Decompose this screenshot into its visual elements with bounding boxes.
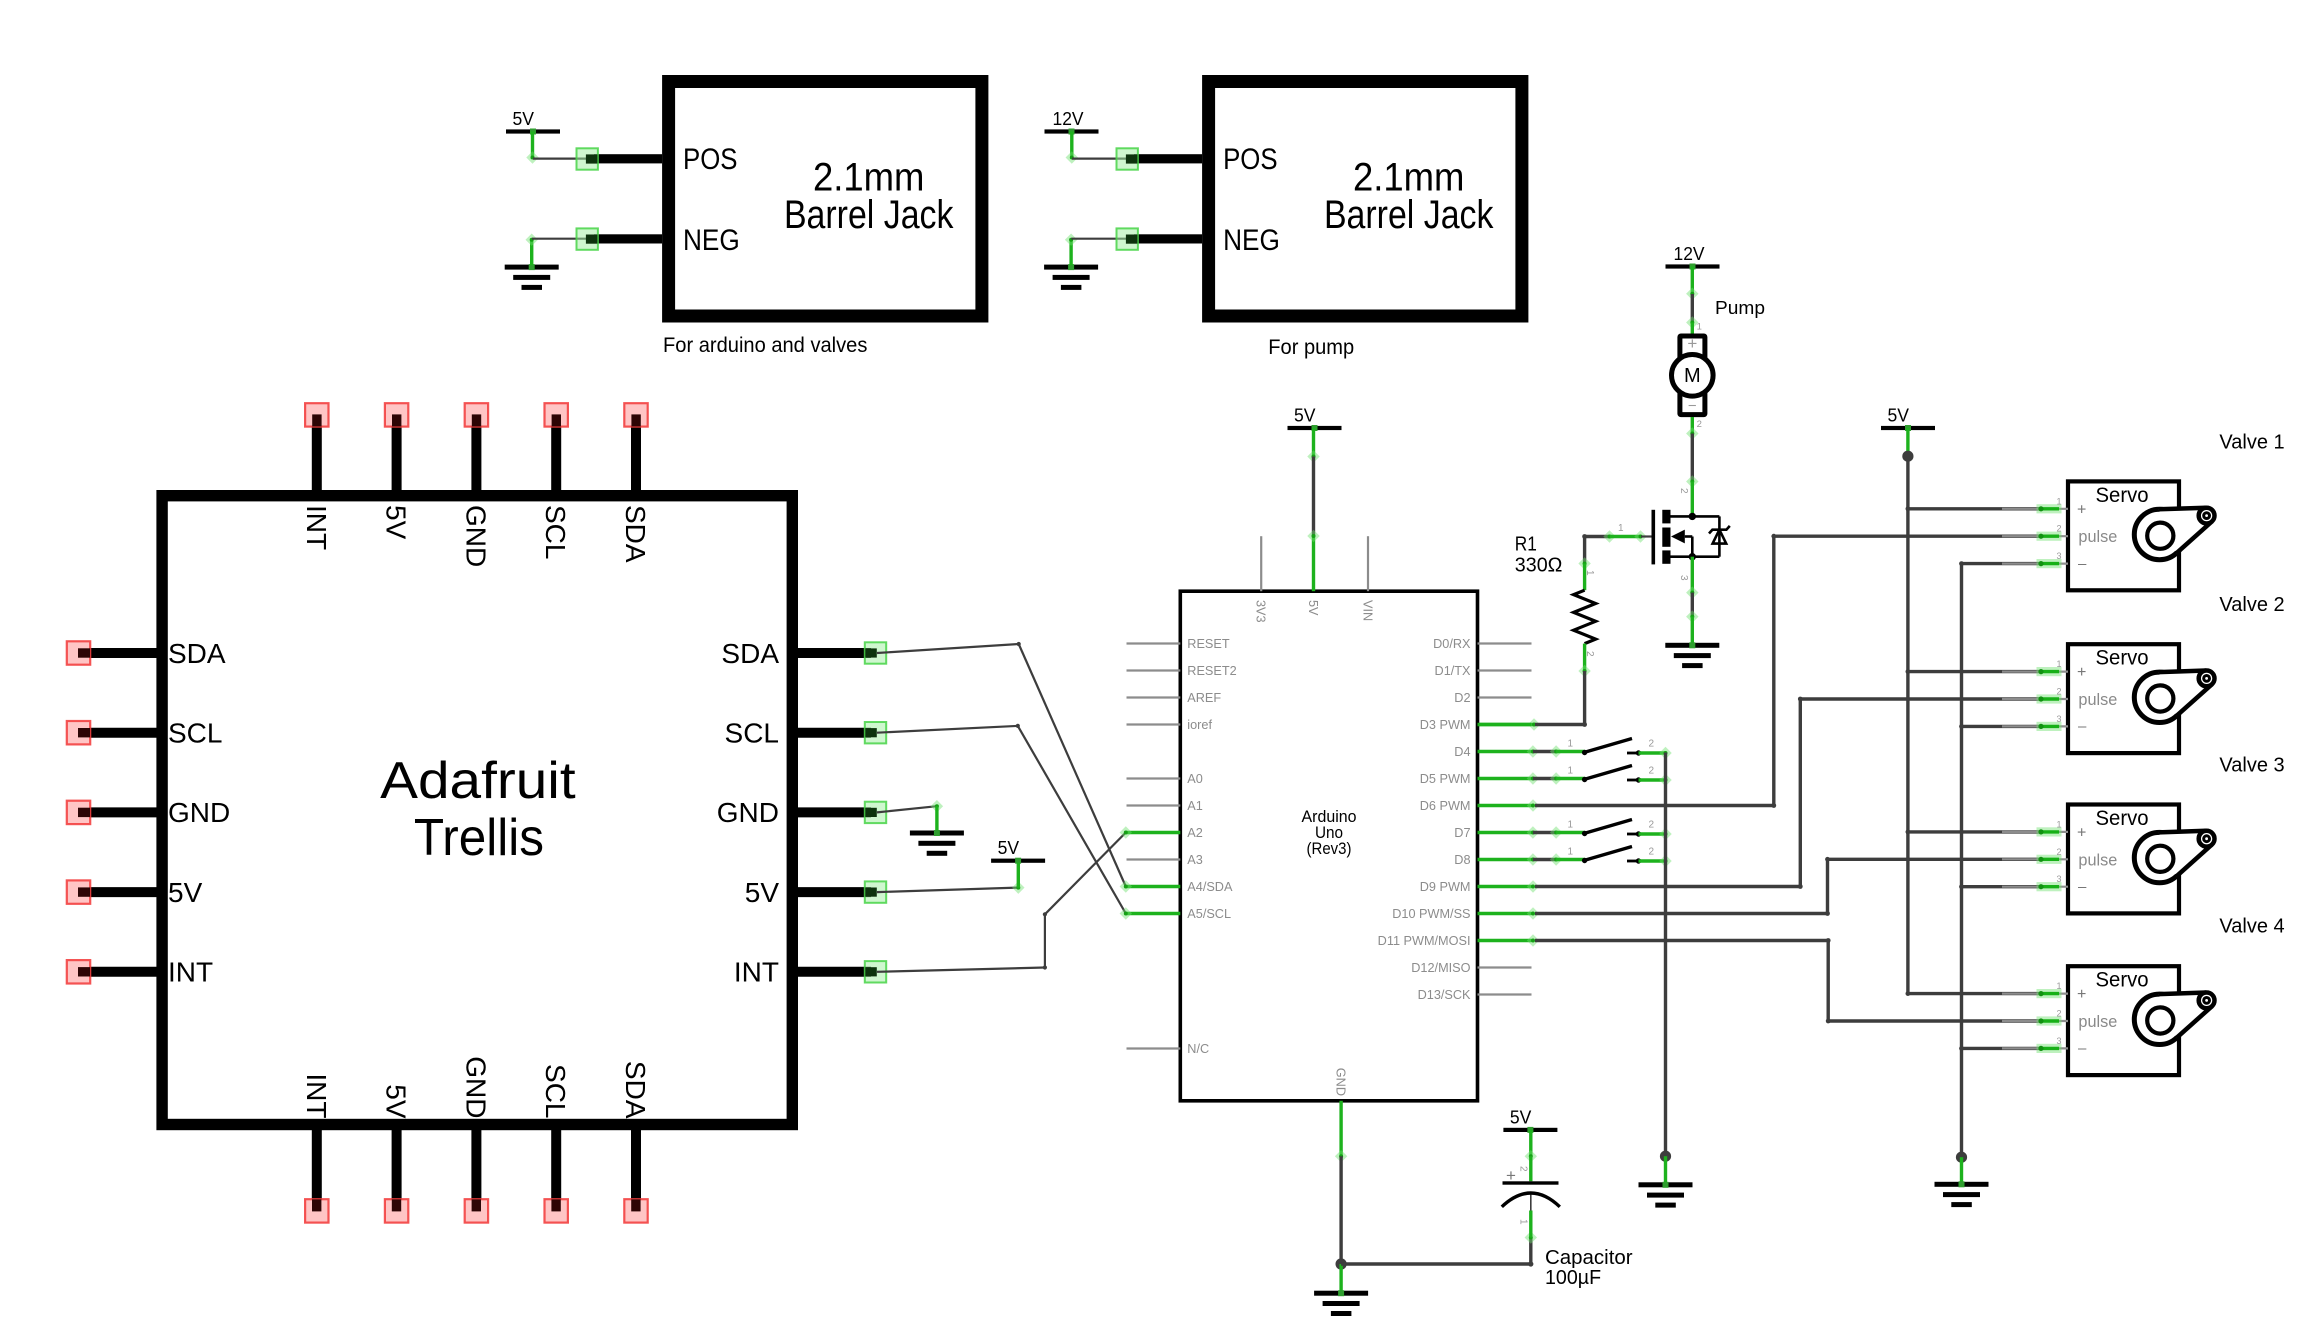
U1 pin ioref bbox=[1127, 718, 1213, 732]
svg-text:5V: 5V bbox=[1306, 600, 1320, 616]
wire servo - rail to ground bbox=[1956, 561, 2042, 1182]
svg-text:Barrel Jack: Barrel Jack bbox=[784, 193, 954, 237]
wire D10 PWM/SS to servo3 pulse bbox=[1527, 857, 2042, 920]
U2 top pin INT (unconnected) bbox=[301, 403, 332, 550]
svg-text:1: 1 bbox=[1567, 766, 1573, 777]
switch S3 (D7) bbox=[1527, 820, 1672, 841]
svg-text:1: 1 bbox=[1567, 847, 1573, 858]
svg-text:3: 3 bbox=[1678, 575, 1689, 581]
power symbol 5V (Arduino) bbox=[1288, 406, 1342, 432]
pin number 1 (C1) bbox=[1518, 1219, 1529, 1225]
U1 pin GND bbox=[1334, 1068, 1348, 1156]
svg-text:5V: 5V bbox=[1510, 1107, 1532, 1127]
resistor R1 330ohm bbox=[1574, 534, 1596, 727]
U1 pin D1/TX bbox=[1435, 664, 1532, 678]
ground symbol (switch rail) bbox=[1639, 1182, 1693, 1208]
svg-text:A2: A2 bbox=[1187, 826, 1203, 840]
U1 pin VIN bbox=[1360, 536, 1374, 621]
svg-text:Adafruit: Adafruit bbox=[380, 752, 576, 810]
svg-text:Servo: Servo bbox=[2096, 647, 2149, 670]
barrel jack J1 body bbox=[669, 82, 982, 317]
ground symbol (U1 GND) bbox=[1314, 1290, 1368, 1316]
label Valve 4 bbox=[2219, 916, 2284, 938]
label Capacitor 100uF bbox=[1545, 1247, 1633, 1289]
switch S1 (D4) bbox=[1527, 739, 1672, 760]
svg-text:INT: INT bbox=[734, 957, 779, 988]
svg-text:–: – bbox=[2078, 1040, 2087, 1057]
svg-text:pulse: pulse bbox=[2078, 1012, 2117, 1031]
U1 pin D3 PWM bbox=[1420, 718, 1532, 732]
pin number 1 (Q1 gate) bbox=[1618, 523, 1624, 534]
svg-text:5V: 5V bbox=[513, 109, 535, 129]
svg-text:D2: D2 bbox=[1454, 691, 1470, 705]
svg-text:Servo: Servo bbox=[2096, 484, 2149, 507]
ground symbol (J2 NEG) bbox=[1044, 264, 1098, 290]
svg-text:2: 2 bbox=[1649, 847, 1655, 858]
svg-text:VIN: VIN bbox=[1360, 600, 1374, 621]
svg-text:3V3: 3V3 bbox=[1254, 600, 1268, 623]
svg-text:1: 1 bbox=[1618, 523, 1624, 534]
svg-text:2: 2 bbox=[1697, 419, 1702, 430]
wire D3 PWM to R1 bbox=[1478, 718, 1585, 730]
svg-text:D13/SCK: D13/SCK bbox=[1418, 988, 1471, 1002]
svg-text:–: – bbox=[2078, 555, 2087, 572]
svg-text:SDA: SDA bbox=[620, 505, 651, 563]
power symbol 12V (net 12V, for J2 POS) bbox=[1045, 109, 1099, 135]
label: Pump bbox=[1715, 298, 1765, 318]
U1 pin D6 PWM bbox=[1420, 799, 1532, 813]
svg-text:A0: A0 bbox=[1187, 772, 1203, 786]
motor M1 (pump) bbox=[1672, 334, 1714, 415]
svg-text:For pump: For pump bbox=[1268, 336, 1354, 359]
U2 right pin GND (connected) bbox=[717, 797, 886, 828]
svg-text:D3 PWM: D3 PWM bbox=[1420, 718, 1471, 732]
svg-text:5V: 5V bbox=[381, 505, 412, 540]
pin number 1 (pump) bbox=[1697, 322, 1702, 333]
capacitor C1 100uF bbox=[1502, 1166, 1560, 1207]
svg-text:Servo: Servo bbox=[2096, 969, 2149, 992]
svg-text:Capacitor: Capacitor bbox=[1545, 1247, 1633, 1269]
svg-text:–: – bbox=[2078, 718, 2087, 735]
svg-text:+: + bbox=[1687, 334, 1697, 353]
label R1 330&#937; bbox=[1515, 534, 1563, 577]
servo M5 (Valve 4) bbox=[2002, 966, 2215, 1075]
U2 left pin INT (unconnected) bbox=[67, 957, 213, 988]
svg-text:NEG: NEG bbox=[683, 224, 740, 257]
svg-text:POS: POS bbox=[1223, 143, 1278, 176]
U1 pin D11 PWM/MOSI bbox=[1378, 934, 1532, 948]
svg-text:SDA: SDA bbox=[620, 1061, 651, 1119]
wire switch common rail to ground bbox=[1660, 753, 1671, 1183]
svg-text:2: 2 bbox=[1678, 488, 1689, 494]
svg-text:SCL: SCL bbox=[540, 505, 571, 559]
U2 bottom pin INT (unconnected) bbox=[301, 1073, 332, 1222]
label: For arduino and valves bbox=[663, 334, 867, 357]
svg-text:1: 1 bbox=[1567, 739, 1573, 750]
wire 5V symbol to U1 5V pin bbox=[1307, 428, 1319, 542]
wire U2 SDA to U1 A4/SDA bbox=[877, 642, 1132, 893]
svg-text:INT: INT bbox=[168, 957, 213, 988]
svg-text:N/C: N/C bbox=[1187, 1042, 1209, 1056]
svg-text:12V: 12V bbox=[1674, 244, 1705, 264]
U2 left pin GND (unconnected) bbox=[67, 797, 230, 828]
svg-text:1: 1 bbox=[1584, 570, 1595, 576]
svg-text:+: + bbox=[2077, 986, 2086, 1003]
U2 right pin SCL (connected) bbox=[725, 718, 887, 749]
svg-text:SCL: SCL bbox=[540, 1064, 571, 1118]
svg-text:2: 2 bbox=[2056, 847, 2061, 857]
connector pin NEG of J1 (green pad) bbox=[577, 228, 663, 249]
svg-text:AREF: AREF bbox=[1187, 691, 1221, 705]
wire 5V to capacitor pin 2 bbox=[1525, 1130, 1537, 1181]
U1 pin A4/SDA bbox=[1127, 880, 1233, 894]
U1 pin D5 PWM bbox=[1420, 772, 1532, 786]
U2 bottom pin 5V (unconnected) bbox=[381, 1084, 412, 1222]
svg-text:2: 2 bbox=[1518, 1166, 1529, 1172]
U1 pin D10 PWM/SS bbox=[1392, 907, 1531, 921]
svg-text:1: 1 bbox=[1697, 322, 1702, 333]
wire 5V rail to servo + pins bbox=[1902, 428, 2042, 996]
wire pump pin 2 to MOSFET drain bbox=[1686, 417, 1698, 516]
svg-text:−: − bbox=[1688, 398, 1697, 415]
svg-text:1: 1 bbox=[2056, 981, 2061, 991]
svg-text:5V: 5V bbox=[1294, 406, 1316, 426]
U1 pin AREF bbox=[1127, 691, 1222, 705]
svg-text:GND: GND bbox=[1334, 1068, 1348, 1096]
U1 pin A1 bbox=[1127, 799, 1203, 813]
svg-text:Valve 3: Valve 3 bbox=[2219, 754, 2284, 776]
wire 12V to pump pin 1 bbox=[1686, 267, 1698, 336]
svg-text:A4/SDA: A4/SDA bbox=[1187, 880, 1233, 894]
svg-text:3: 3 bbox=[2056, 714, 2061, 724]
wire U2 INT to U1 A2 bbox=[877, 826, 1132, 972]
U1 pin 5V bbox=[1306, 536, 1320, 616]
label Valve 3 bbox=[2219, 754, 2284, 776]
wire R1 to Q1 gate bbox=[1585, 530, 1652, 542]
pin number 3 (Q1 source) bbox=[1678, 575, 1689, 581]
U2 bottom pin SCL (unconnected) bbox=[540, 1064, 571, 1223]
wire U2 5V to 5V symbol bbox=[877, 863, 1025, 894]
U1 pin D8 bbox=[1454, 853, 1531, 867]
svg-text:D11 PWM/MOSI: D11 PWM/MOSI bbox=[1378, 934, 1471, 948]
svg-text:pulse: pulse bbox=[2078, 690, 2117, 709]
power symbol 5V (capacitor) bbox=[1503, 1107, 1557, 1133]
U2 bottom pin SDA (unconnected) bbox=[620, 1061, 651, 1223]
pin number 2 (pump) bbox=[1697, 419, 1702, 430]
svg-text:5V: 5V bbox=[381, 1084, 412, 1119]
Adafruit Trellis U2 body bbox=[162, 496, 792, 1125]
wire 12V symbol to J2 POS bbox=[1066, 132, 1128, 164]
U2 bottom pin GND (unconnected) bbox=[460, 1056, 491, 1222]
svg-text:INT: INT bbox=[301, 1073, 332, 1118]
U1 pin RESET2 bbox=[1127, 664, 1237, 678]
svg-text:A1: A1 bbox=[1187, 799, 1203, 813]
svg-text:1: 1 bbox=[2056, 819, 2061, 829]
svg-text:GND: GND bbox=[168, 797, 230, 828]
U1 pin A0 bbox=[1127, 772, 1203, 786]
svg-text:SCL: SCL bbox=[168, 718, 222, 749]
svg-text:RESET: RESET bbox=[1187, 637, 1230, 651]
servo M4 (Valve 3) bbox=[2002, 805, 2215, 914]
ground symbol (U2 GND) bbox=[910, 830, 964, 856]
svg-text:D1/TX: D1/TX bbox=[1435, 664, 1471, 678]
svg-text:2: 2 bbox=[2056, 1009, 2061, 1019]
wire D11 PWM/MOSI to servo4 pulse bbox=[1527, 934, 2042, 1023]
svg-text:SDA: SDA bbox=[721, 638, 779, 669]
svg-text:3: 3 bbox=[2056, 874, 2061, 884]
svg-text:GND: GND bbox=[460, 505, 491, 567]
U1 pin D0/RX bbox=[1433, 637, 1531, 651]
svg-text:1: 1 bbox=[2056, 659, 2061, 669]
svg-text:Barrel Jack: Barrel Jack bbox=[1324, 193, 1494, 237]
svg-text:Pump: Pump bbox=[1715, 298, 1765, 318]
connector pin POS of J2 (green pad) bbox=[1117, 148, 1203, 169]
svg-text:R1: R1 bbox=[1515, 534, 1537, 556]
wire J1 NEG to ground bbox=[525, 233, 588, 265]
Arduino Uno U1 body bbox=[1180, 591, 1477, 1101]
svg-text:Servo: Servo bbox=[2096, 807, 2149, 830]
svg-text:5V: 5V bbox=[1888, 406, 1910, 426]
svg-text:2: 2 bbox=[2056, 524, 2061, 534]
svg-text:D6 PWM: D6 PWM bbox=[1420, 799, 1471, 813]
svg-text:5V: 5V bbox=[745, 877, 780, 908]
svg-text:D7: D7 bbox=[1454, 826, 1470, 840]
svg-text:2: 2 bbox=[2056, 687, 2061, 697]
svg-text:1: 1 bbox=[1518, 1219, 1529, 1225]
svg-text:3: 3 bbox=[2056, 1036, 2061, 1046]
wire U2 GND to ground bbox=[877, 800, 943, 831]
svg-text:100µF: 100µF bbox=[1545, 1267, 1601, 1289]
switch S2 (D5) bbox=[1527, 766, 1672, 787]
U2 right pin SDA (connected) bbox=[721, 638, 886, 669]
U1 pin 3V3 bbox=[1254, 536, 1268, 622]
U1 pin A3 bbox=[1127, 853, 1203, 867]
servo M3 (Valve 2) bbox=[2002, 644, 2215, 753]
svg-text:SCL: SCL bbox=[725, 718, 779, 749]
power symbol 5V (net 5V, for J1 POS) bbox=[506, 109, 560, 135]
svg-text:Trellis: Trellis bbox=[414, 809, 544, 867]
svg-text:D8: D8 bbox=[1454, 853, 1470, 867]
wire D9 PWM to servo2 pulse bbox=[1527, 697, 2042, 893]
svg-text:For arduino and valves: For arduino and valves bbox=[663, 334, 867, 357]
svg-text:5V: 5V bbox=[998, 838, 1020, 858]
svg-text:Valve 2: Valve 2 bbox=[2219, 594, 2284, 616]
svg-text:Valve 1: Valve 1 bbox=[2219, 431, 2284, 453]
U1 pin D7 bbox=[1454, 826, 1531, 840]
svg-text:POS: POS bbox=[683, 143, 738, 176]
svg-text:+: + bbox=[2077, 664, 2086, 681]
label Valve 2 bbox=[2219, 594, 2284, 616]
wire Q1 source to ground bbox=[1686, 557, 1698, 644]
U2 right pin 5V (connected) bbox=[745, 877, 886, 908]
svg-text:330Ω: 330Ω bbox=[1515, 555, 1563, 577]
switch S4 (D8) bbox=[1527, 847, 1672, 868]
power symbol 12V (pump supply) bbox=[1666, 244, 1720, 270]
U1 pin D2 bbox=[1454, 691, 1531, 705]
U1 pin RESET bbox=[1127, 637, 1230, 651]
U2 left pin SDA (unconnected) bbox=[67, 638, 226, 669]
servo M2 (Valve 1) bbox=[2002, 481, 2215, 590]
svg-text:RESET2: RESET2 bbox=[1187, 664, 1236, 678]
svg-text:INT: INT bbox=[301, 505, 332, 550]
connector pin NEG of J2 (green pad) bbox=[1117, 228, 1203, 249]
ground symbol (servo - rail) bbox=[1935, 1181, 1989, 1207]
power symbol 5V (servos) bbox=[1881, 406, 1935, 432]
svg-text:+: + bbox=[1506, 1166, 1516, 1185]
barrel jack J2 body bbox=[1209, 82, 1522, 317]
U2 top pin SCL (unconnected) bbox=[540, 403, 571, 559]
U1 pin A2 bbox=[1127, 826, 1203, 840]
wire 5V symbol to J1 POS bbox=[526, 132, 588, 164]
wire U1 GND to ground and capacitor bbox=[1335, 1150, 1537, 1291]
U2 top pin SDA (unconnected) bbox=[620, 403, 651, 563]
svg-text:pulse: pulse bbox=[2078, 850, 2117, 869]
connector pin POS of J1 (green pad) bbox=[577, 148, 663, 169]
pin number 2 (R1) bbox=[1584, 651, 1595, 657]
svg-text:D0/RX: D0/RX bbox=[1433, 637, 1471, 651]
svg-text:1: 1 bbox=[2056, 496, 2061, 506]
svg-text:ioref: ioref bbox=[1187, 718, 1212, 732]
svg-text:M: M bbox=[1684, 365, 1701, 387]
svg-text:NEG: NEG bbox=[1223, 224, 1280, 257]
wire D6 PWM to servo1 pulse bbox=[1527, 534, 2042, 812]
pin number 2 (Q1 drain) bbox=[1678, 488, 1689, 494]
svg-text:D4: D4 bbox=[1454, 745, 1470, 759]
U1 pin D12/MISO bbox=[1411, 961, 1531, 975]
U2 right pin INT (connected) bbox=[734, 957, 886, 988]
U2 left pin 5V (unconnected) bbox=[67, 877, 203, 908]
transistor Q1 (n-MOSFET) bbox=[1652, 510, 1730, 565]
U2 left pin SCL (unconnected) bbox=[67, 718, 223, 749]
U1 pin D9 PWM bbox=[1420, 880, 1532, 894]
svg-text:+: + bbox=[2077, 501, 2086, 518]
svg-text:2: 2 bbox=[1649, 739, 1655, 750]
U1 pin A5/SCL bbox=[1127, 907, 1232, 921]
svg-text:2: 2 bbox=[1649, 820, 1655, 831]
svg-text:3: 3 bbox=[2056, 551, 2061, 561]
pin number 1 (R1) bbox=[1584, 570, 1595, 576]
svg-text:2: 2 bbox=[1649, 766, 1655, 777]
svg-text:(Rev3): (Rev3) bbox=[1307, 840, 1352, 858]
wire U2 SCL to U1 A5/SCL bbox=[877, 724, 1132, 920]
label Valve 1 bbox=[2219, 431, 2284, 453]
svg-text:D9 PWM: D9 PWM bbox=[1420, 880, 1471, 894]
U2 top pin GND (unconnected) bbox=[460, 403, 491, 567]
ground symbol (J1 NEG) bbox=[505, 264, 559, 290]
svg-text:D5 PWM: D5 PWM bbox=[1420, 772, 1471, 786]
U1 pin N/C bbox=[1127, 1042, 1210, 1056]
ground symbol (Q1 source) bbox=[1665, 642, 1719, 668]
pin number 2 (C1) bbox=[1518, 1166, 1529, 1172]
svg-text:2: 2 bbox=[1584, 651, 1595, 657]
svg-text:1: 1 bbox=[1567, 820, 1573, 831]
svg-text:D10 PWM/SS: D10 PWM/SS bbox=[1392, 907, 1470, 921]
svg-text:SDA: SDA bbox=[168, 638, 226, 669]
svg-text:pulse: pulse bbox=[2078, 527, 2117, 546]
svg-text:A3: A3 bbox=[1187, 853, 1203, 867]
svg-text:GND: GND bbox=[460, 1056, 491, 1118]
svg-text:Valve 4: Valve 4 bbox=[2219, 916, 2284, 938]
label: For pump bbox=[1268, 336, 1354, 359]
svg-text:–: – bbox=[2078, 879, 2087, 896]
svg-text:5V: 5V bbox=[168, 877, 203, 908]
svg-text:12V: 12V bbox=[1053, 109, 1084, 129]
U1 pin D13/SCK bbox=[1418, 988, 1532, 1002]
U2 top pin 5V (unconnected) bbox=[381, 403, 412, 539]
power symbol 5V (U2) bbox=[991, 838, 1045, 864]
svg-text:A5/SCL: A5/SCL bbox=[1187, 907, 1231, 921]
svg-text:+: + bbox=[2077, 825, 2086, 842]
U1 pin D4 bbox=[1454, 745, 1531, 759]
wire J2 NEG to ground bbox=[1065, 233, 1128, 265]
svg-text:D12/MISO: D12/MISO bbox=[1411, 961, 1470, 975]
svg-text:GND: GND bbox=[717, 797, 779, 828]
